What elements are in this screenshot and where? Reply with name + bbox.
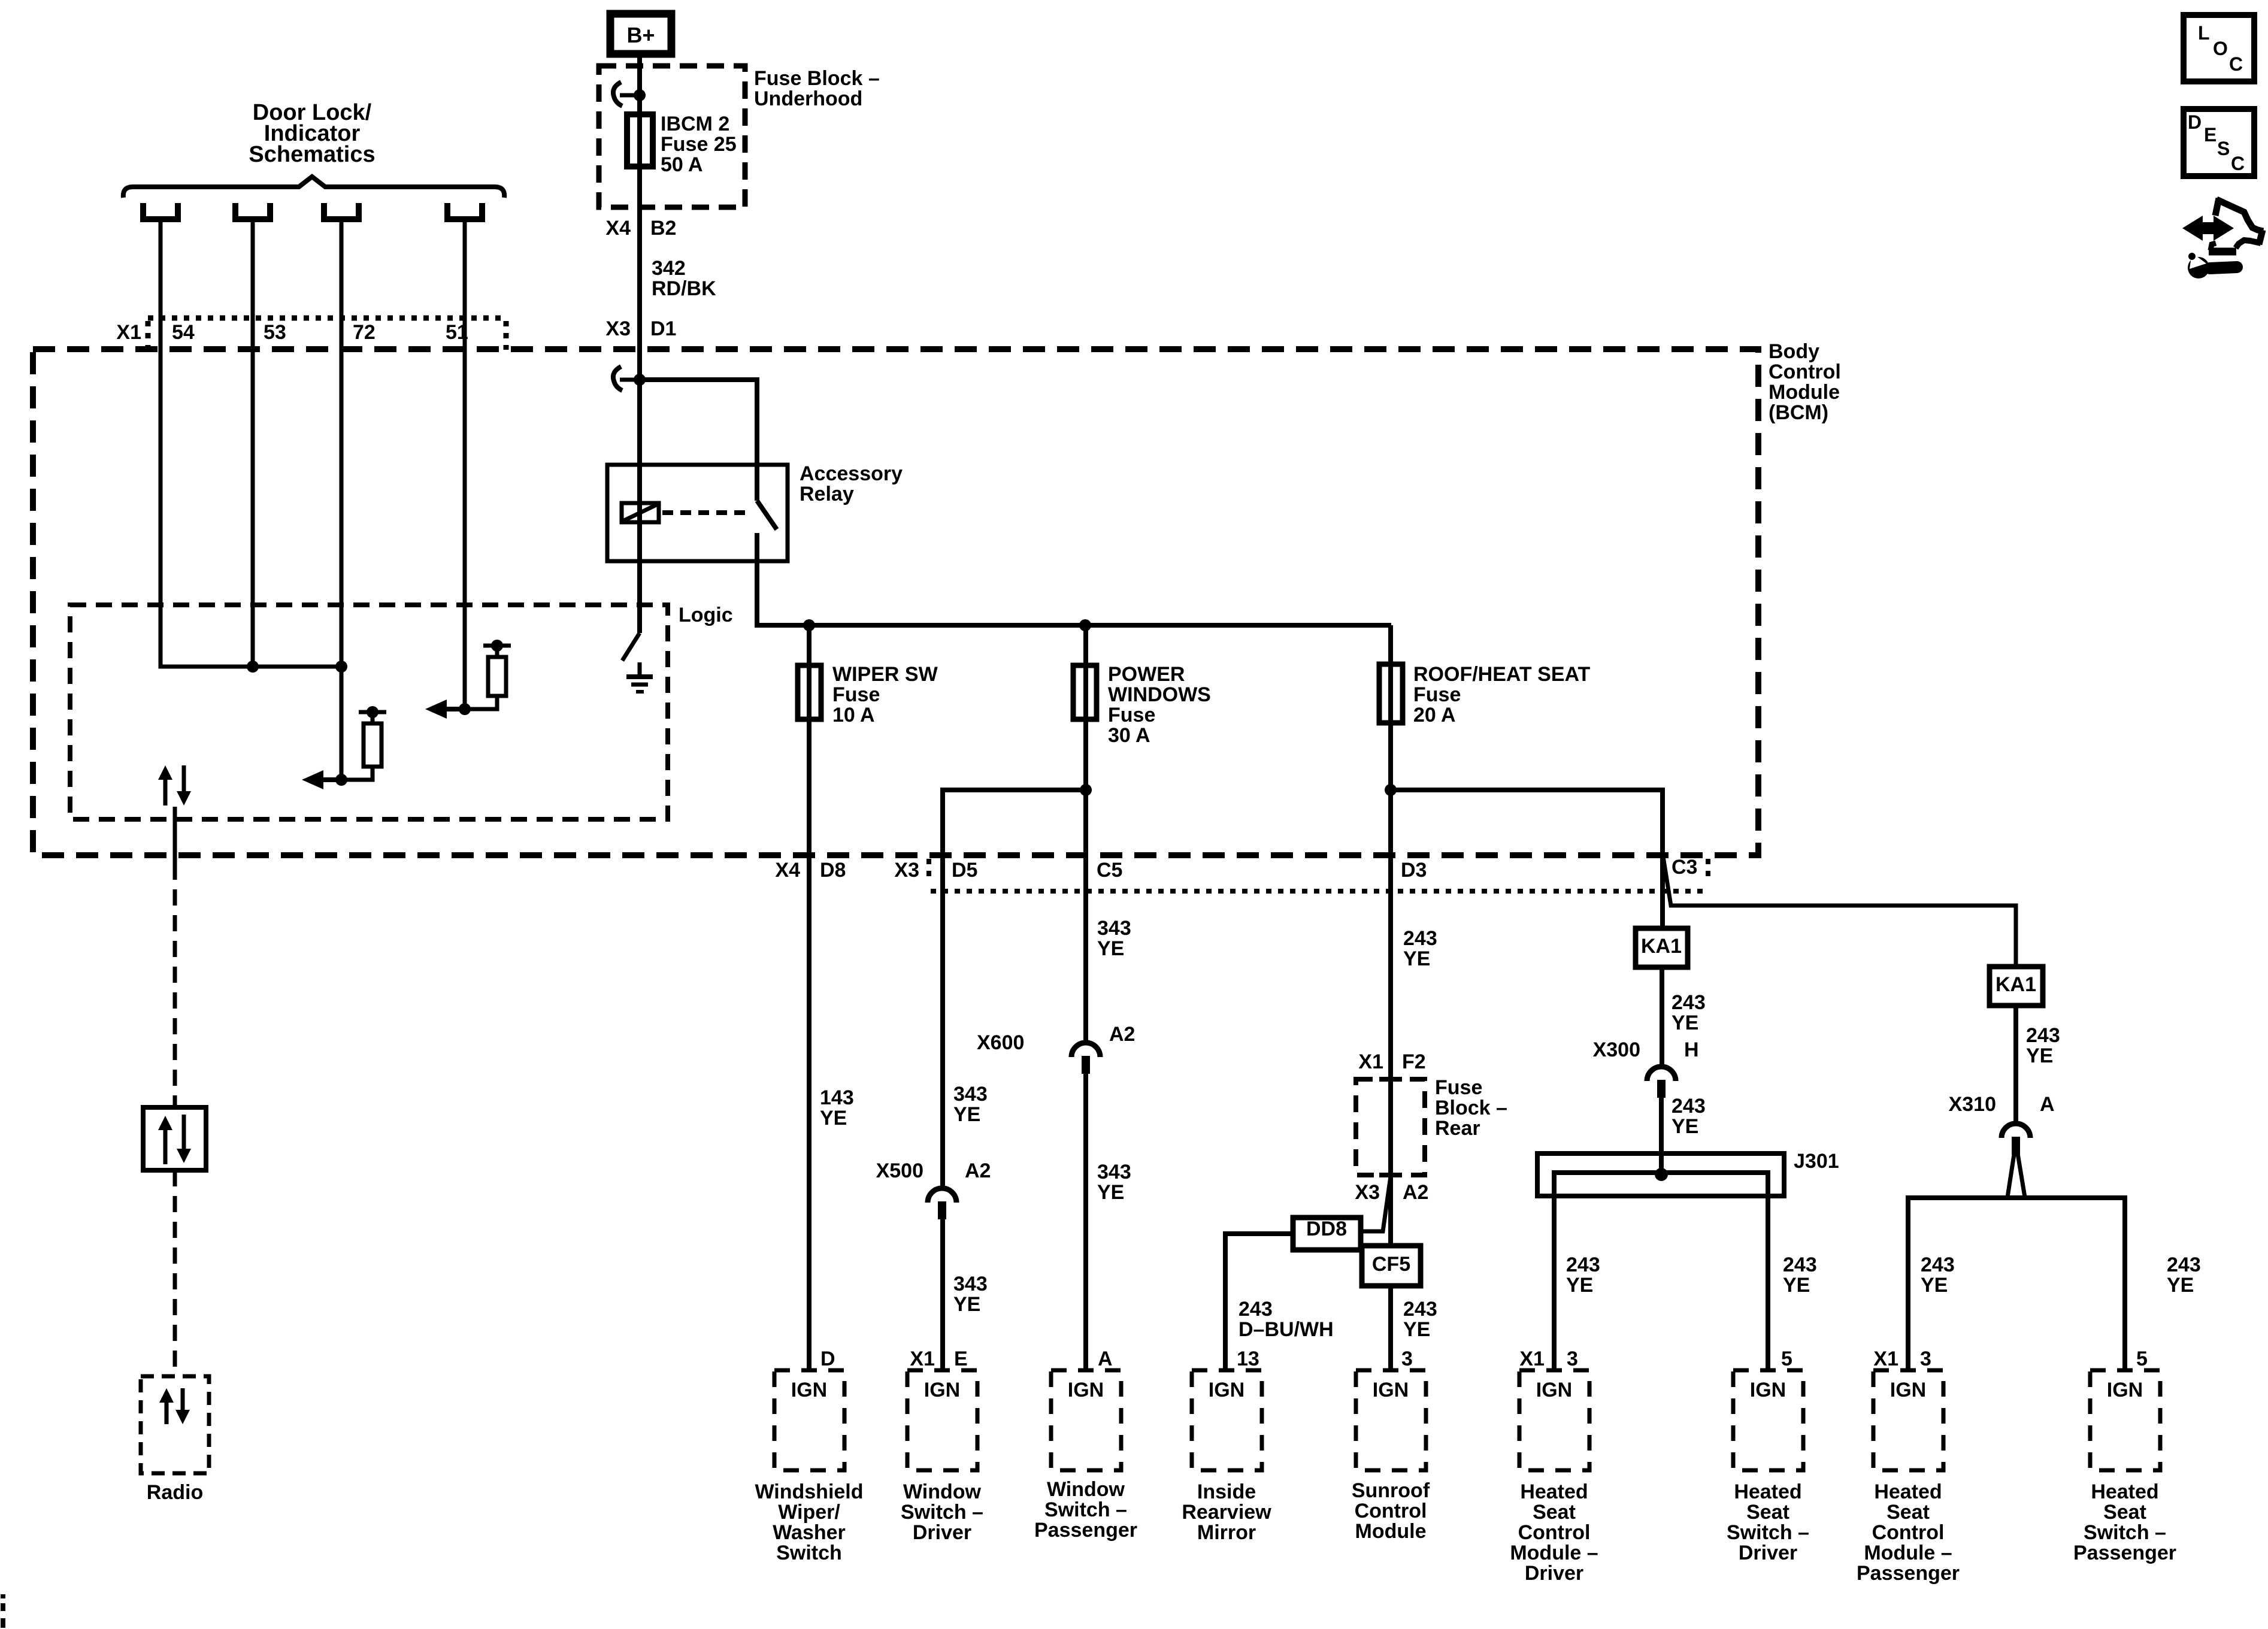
svg-text:Driver: Driver (913, 1521, 971, 1544)
svg-text:20 A: 20 A (1413, 704, 1456, 726)
logic box (70, 605, 668, 819)
connector X300 (1647, 1067, 1676, 1081)
up/down arrows in logic box (163, 777, 168, 806)
svg-text:YE: YE (953, 1293, 980, 1316)
connector IGN windshield wiper (774, 1370, 844, 1470)
svg-text:IGN: IGN (1209, 1379, 1244, 1401)
svg-text:Switch –: Switch – (1727, 1521, 1809, 1544)
wire C5 lower (1083, 1074, 1088, 1370)
svg-text:YE: YE (953, 1103, 980, 1126)
splice pack J301 (1537, 1153, 1784, 1196)
wire from B+ (637, 57, 642, 633)
svg-text:Sunroof: Sunroof (1352, 1479, 1430, 1502)
connector X3 strip (926, 859, 931, 882)
svg-text:B2: B2 (650, 217, 676, 240)
svg-text:Switch: Switch (776, 1542, 842, 1564)
svg-text:243: 243 (1672, 1095, 1706, 1118)
wire down from logic (173, 807, 177, 864)
lower bus right to C3 (1391, 790, 1663, 928)
svg-text:Fuse 25: Fuse 25 (661, 133, 737, 156)
fuse ROOF/HEAT SEAT 20A (1379, 664, 1403, 723)
svg-text:243: 243 (2026, 1024, 2060, 1047)
svg-text:YE: YE (820, 1107, 847, 1130)
svg-text:Rearview: Rearview (1182, 1501, 1271, 1524)
splice KA1 passenger (1990, 967, 2043, 1006)
svg-text:Wiper/: Wiper/ (778, 1501, 840, 1524)
svg-text:53: 53 (264, 321, 286, 344)
svg-text:RD/BK: RD/BK (652, 277, 716, 300)
svg-text:343: 343 (953, 1273, 988, 1295)
wire D3 to CF5 (1388, 1175, 1393, 1370)
svg-text:X3: X3 (894, 859, 919, 882)
svg-text:Switch –: Switch – (1044, 1498, 1127, 1521)
svg-text:30 A: 30 A (1108, 724, 1150, 747)
wire KA1 to X300 (1660, 967, 1664, 1069)
svg-text:243: 243 (2167, 1253, 2201, 1276)
node on wire 72 (335, 774, 347, 786)
svg-text:Rear: Rear (1435, 1117, 1480, 1140)
svg-text:IGN: IGN (1068, 1379, 1104, 1401)
svg-text:Switch –: Switch – (2084, 1521, 2166, 1544)
svg-text:KA1: KA1 (1996, 973, 2036, 996)
door lock switch box (143, 1107, 206, 1170)
svg-text:X310: X310 (1949, 1093, 1996, 1116)
wire to relay switch (640, 380, 757, 501)
svg-text:YE: YE (1921, 1274, 1948, 1297)
connector IGN heated seat control module passenger (1873, 1370, 1943, 1470)
connector pin symbol 1 (140, 203, 146, 217)
logic switch blade (622, 633, 640, 661)
svg-text:342: 342 (652, 257, 686, 280)
svg-text:Control: Control (1872, 1521, 1945, 1544)
svg-text:C: C (2229, 53, 2243, 75)
wire C5 upper (1083, 625, 1088, 1043)
svg-text:Seat: Seat (1746, 1501, 1789, 1524)
svg-text:Block –: Block – (1435, 1097, 1507, 1119)
fuse block underhood box (599, 66, 745, 207)
svg-text:IBCM 2: IBCM 2 (661, 113, 729, 135)
wire to radio (173, 1170, 177, 1376)
svg-text:IGN: IGN (2107, 1379, 2143, 1401)
relay output wire to bus (757, 533, 1391, 625)
connector X1 strip (148, 316, 506, 321)
svg-text:Module: Module (1355, 1520, 1427, 1543)
svg-text:Module: Module (1769, 381, 1840, 404)
svg-text:YE: YE (1403, 1318, 1430, 1341)
fuse POWER WINDOWS 30A (1073, 665, 1097, 719)
DESC box (2184, 109, 2254, 176)
svg-text:B+: B+ (626, 23, 655, 47)
svg-text:X1: X1 (1519, 1348, 1545, 1370)
svg-text:YE: YE (1672, 1115, 1698, 1138)
wire 72 (340, 222, 344, 780)
node at B2 (634, 89, 646, 101)
svg-text:50 A: 50 A (661, 153, 703, 176)
svg-text:O: O (2213, 38, 2228, 59)
svg-text:H: H (1684, 1038, 1699, 1061)
svg-text:Schematics: Schematics (249, 142, 375, 167)
svg-text:X1: X1 (1873, 1348, 1898, 1370)
svg-text:Body: Body (1769, 340, 1819, 363)
fuse IBCM 2 Fuse 25 50A (627, 114, 653, 166)
svg-text:343: 343 (1097, 1161, 1131, 1183)
jog wire to KA1 branch (1663, 853, 2016, 967)
splice DD8 (1293, 1218, 1361, 1250)
battery B+ (610, 14, 671, 54)
lower bus left (943, 790, 1086, 1189)
fuse WIPER SW 10A (798, 665, 821, 719)
relay coil (622, 503, 659, 522)
svg-text:X1: X1 (116, 321, 141, 344)
svg-text:D–BU/WH: D–BU/WH (1239, 1318, 1334, 1341)
svg-text:D5: D5 (952, 859, 977, 882)
svg-text:243: 243 (1921, 1253, 1955, 1276)
svg-text:IGN: IGN (791, 1379, 827, 1401)
node bus wiper (803, 619, 815, 631)
service icon arrow (2197, 222, 2219, 234)
svg-text:Fuse: Fuse (1108, 704, 1155, 726)
svg-text:Fuse: Fuse (1413, 683, 1461, 706)
svg-text:5: 5 (1781, 1348, 1792, 1370)
svg-text:5: 5 (2136, 1348, 2148, 1370)
wire J301 left leg (1552, 1196, 1557, 1370)
svg-text:F2: F2 (1402, 1050, 1426, 1073)
svg-text:Relay: Relay (800, 483, 854, 505)
svg-text:IGN: IGN (1750, 1379, 1786, 1401)
page edge connector stub (1, 1594, 5, 1598)
svg-text:YE: YE (1403, 947, 1430, 970)
svg-text:C5: C5 (1097, 859, 1122, 882)
clip connector at D1 (613, 367, 622, 390)
svg-text:Heated: Heated (1874, 1480, 1942, 1503)
connector pin symbol 3 (321, 203, 327, 217)
connector X600 (1071, 1043, 1100, 1057)
svg-text:Fuse: Fuse (832, 683, 880, 706)
svg-text:X1: X1 (1358, 1050, 1383, 1073)
svg-text:Inside: Inside (1197, 1480, 1256, 1503)
svg-text:A: A (2040, 1093, 2055, 1116)
wire 51 (463, 222, 467, 709)
svg-text:Washer: Washer (773, 1521, 846, 1544)
connector pin symbol 4 (444, 203, 450, 217)
svg-text:A: A (1098, 1348, 1113, 1370)
svg-text:243: 243 (1239, 1298, 1273, 1321)
svg-text:YE: YE (1097, 937, 1124, 960)
arrow on wire 51 (443, 707, 465, 711)
node bus power windows (1079, 619, 1091, 631)
svg-text:YE: YE (1566, 1274, 1593, 1297)
svg-text:D: D (2188, 111, 2202, 133)
svg-text:243: 243 (1403, 927, 1437, 950)
svg-text:Passenger: Passenger (1034, 1519, 1137, 1542)
wire to mirror (1225, 1234, 1293, 1370)
svg-text:Fuse: Fuse (1435, 1076, 1482, 1099)
svg-text:J301: J301 (1794, 1150, 1839, 1173)
svg-text:E: E (2204, 124, 2216, 146)
svg-text:D: D (820, 1348, 835, 1370)
svg-text:Underhood: Underhood (754, 87, 862, 110)
service icon wrench (2188, 257, 2209, 278)
svg-text:C3: C3 (1672, 856, 1697, 879)
svg-text:X4: X4 (605, 217, 631, 240)
svg-text:143: 143 (820, 1086, 854, 1109)
svg-text:E: E (954, 1348, 968, 1370)
svg-text:D1: D1 (650, 317, 676, 340)
svg-text:Module –: Module – (1510, 1542, 1598, 1564)
svg-text:Passenger: Passenger (1857, 1562, 1960, 1585)
svg-text:Mirror: Mirror (1197, 1521, 1256, 1544)
svg-text:Window: Window (1047, 1478, 1125, 1501)
splice KA1 driver (1636, 928, 1688, 967)
connector IGN inside rearview mirror (1192, 1370, 1262, 1470)
brace (123, 177, 504, 198)
accessory relay box (607, 465, 788, 561)
wire 54 (161, 222, 341, 667)
svg-text:IGN: IGN (1536, 1379, 1572, 1401)
svg-text:IGN: IGN (1373, 1379, 1409, 1401)
svg-text:(BCM): (BCM) (1769, 401, 1828, 424)
jog wire to DD8 line (1361, 1176, 1391, 1231)
connector IGN window switch driver (907, 1370, 977, 1470)
svg-text:X4: X4 (775, 859, 800, 882)
svg-text:IGN: IGN (1890, 1379, 1926, 1401)
fuse block rear box (1356, 1079, 1425, 1175)
wire J301 right leg (1766, 1196, 1770, 1370)
node on wire 51 (459, 703, 471, 715)
connector IGN sunroof control module (1356, 1370, 1426, 1470)
wire KA1 to X310 (2013, 1006, 2018, 1126)
svg-text:Windshield: Windshield (755, 1480, 863, 1503)
svg-text:D3: D3 (1401, 859, 1427, 882)
svg-text:DD8: DD8 (1306, 1218, 1347, 1240)
svg-text:Switch –: Switch – (901, 1501, 983, 1524)
svg-text:Fuse Block –: Fuse Block – (754, 67, 880, 90)
wire D5 lower (940, 1219, 945, 1370)
svg-text:3: 3 (1920, 1348, 1931, 1370)
svg-text:D8: D8 (820, 859, 846, 882)
wire 53 (251, 222, 255, 667)
svg-text:YE: YE (2026, 1044, 2053, 1067)
svg-text:X1: X1 (910, 1348, 935, 1370)
svg-text:13: 13 (1237, 1348, 1259, 1370)
connector X310 (2001, 1124, 2030, 1138)
svg-text:X600: X600 (977, 1031, 1024, 1054)
svg-text:X3: X3 (1355, 1181, 1380, 1204)
connector pin symbol 2 (232, 203, 238, 217)
ground (638, 662, 642, 676)
svg-text:343: 343 (953, 1083, 988, 1106)
svg-text:Control: Control (1769, 361, 1841, 383)
svg-text:Heated: Heated (2091, 1480, 2158, 1503)
wire D8 (807, 625, 811, 1370)
svg-text:ROOF/HEAT SEAT: ROOF/HEAT SEAT (1413, 663, 1591, 686)
svg-text:WIPER SW: WIPER SW (832, 663, 938, 686)
svg-text:A2: A2 (1403, 1181, 1428, 1204)
svg-text:Window: Window (903, 1480, 982, 1503)
svg-text:YE: YE (1783, 1274, 1810, 1297)
svg-text:243: 243 (1672, 991, 1706, 1014)
svg-text:POWER: POWER (1108, 663, 1185, 686)
svg-text:Radio: Radio (147, 1481, 203, 1504)
svg-text:243: 243 (1566, 1253, 1600, 1276)
relay switch blade (757, 501, 777, 529)
radio box (141, 1376, 209, 1473)
svg-text:243: 243 (1783, 1253, 1817, 1276)
connector IGN heated seat control module driver (1519, 1370, 1589, 1470)
svg-text:10 A: 10 A (832, 704, 875, 726)
indicator resistor on wire 51 (483, 644, 511, 648)
relay link dashed (662, 510, 750, 515)
svg-text:51: 51 (446, 321, 468, 344)
svg-text:3: 3 (1567, 1348, 1578, 1370)
svg-text:X500: X500 (876, 1159, 923, 1182)
clip connector at B2 (613, 82, 622, 106)
svg-text:Passenger: Passenger (2073, 1542, 2176, 1564)
LOC box (2184, 15, 2254, 81)
BCM dashed box (33, 349, 1758, 855)
svg-text:X300: X300 (1593, 1038, 1640, 1061)
svg-text:Control: Control (1518, 1521, 1591, 1544)
Y split (1908, 1198, 2125, 1370)
svg-text:Control: Control (1355, 1500, 1427, 1522)
svg-text:243: 243 (1403, 1298, 1437, 1321)
indicator resistor on wire 72 (359, 710, 386, 714)
node junction 72 (335, 661, 347, 673)
svg-text:Driver: Driver (1525, 1562, 1583, 1585)
svg-text:Driver: Driver (1739, 1542, 1797, 1564)
splice CF5 (1362, 1246, 1421, 1286)
svg-text:C: C (2231, 153, 2245, 174)
svg-text:A2: A2 (965, 1159, 991, 1182)
node at D1 (634, 374, 646, 386)
svg-text:A2: A2 (1109, 1023, 1135, 1046)
wire D3 main (1388, 625, 1393, 1175)
svg-text:Heated: Heated (1520, 1480, 1588, 1503)
svg-text:KA1: KA1 (1641, 935, 1682, 958)
svg-text:3: 3 (1401, 1348, 1413, 1370)
svg-text:CF5: CF5 (1372, 1253, 1410, 1276)
svg-text:WINDOWS: WINDOWS (1108, 683, 1211, 706)
service icon car outline (2215, 198, 2219, 216)
connector X500 (928, 1188, 956, 1203)
svg-text:IGN: IGN (924, 1379, 960, 1401)
connector IGN heated seat switch passenger (2090, 1370, 2160, 1470)
svg-text:YE: YE (2167, 1274, 2194, 1297)
svg-text:Module –: Module – (1864, 1542, 1952, 1564)
svg-text:Logic: Logic (679, 604, 733, 626)
connector IGN window switch passenger (1051, 1370, 1121, 1470)
svg-text:54: 54 (172, 321, 195, 344)
connector IGN heated seat switch driver (1733, 1370, 1803, 1470)
svg-text:Seat: Seat (2103, 1501, 2146, 1524)
node D3 lower bus (1385, 784, 1397, 796)
svg-text:YE: YE (1672, 1012, 1698, 1034)
svg-text:Seat: Seat (1533, 1501, 1576, 1524)
svg-text:Accessory: Accessory (800, 462, 903, 485)
svg-text:YE: YE (1097, 1181, 1124, 1204)
svg-text:Seat: Seat (1887, 1501, 1930, 1524)
svg-text:X3: X3 (605, 317, 631, 340)
svg-text:72: 72 (353, 321, 376, 344)
svg-text:343: 343 (1097, 917, 1131, 940)
svg-text:S: S (2217, 138, 2230, 159)
svg-text:L: L (2198, 22, 2210, 44)
node C5 lower bus (1080, 784, 1092, 796)
node junction 53 (247, 661, 259, 673)
wire X300 to J301 (1659, 1098, 1664, 1174)
arrow on wire 72 (320, 777, 341, 782)
svg-text:Heated: Heated (1734, 1480, 1801, 1503)
